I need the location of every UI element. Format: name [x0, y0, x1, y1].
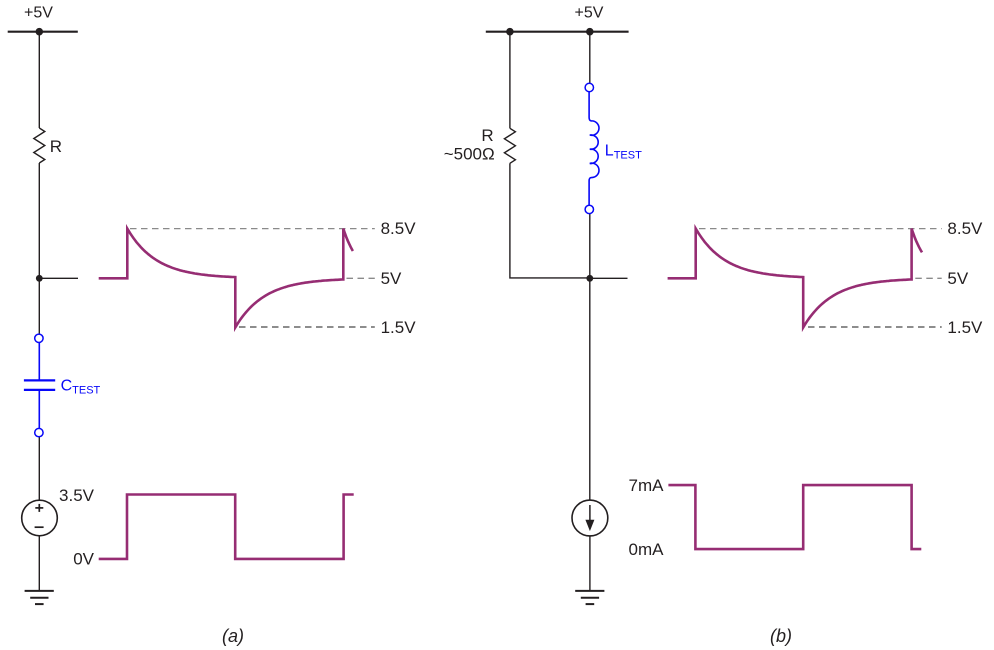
svg-text:0mA: 0mA	[629, 540, 665, 559]
svg-text:R: R	[50, 137, 62, 156]
svg-text:+5V: +5V	[24, 5, 53, 22]
svg-text:R: R	[481, 126, 493, 145]
svg-text:3.5V: 3.5V	[59, 486, 95, 505]
svg-text:8.5V: 8.5V	[947, 219, 983, 238]
svg-text:0V: 0V	[73, 549, 94, 568]
svg-text:5V: 5V	[381, 269, 402, 288]
svg-text:LTEST: LTEST	[605, 143, 642, 162]
svg-text:+5V: +5V	[575, 5, 604, 22]
svg-text:8.5V: 8.5V	[381, 219, 417, 238]
svg-text:1.5V: 1.5V	[947, 318, 983, 337]
svg-text:~500Ω: ~500Ω	[444, 144, 495, 163]
svg-text:5V: 5V	[947, 269, 968, 288]
svg-text:7mA: 7mA	[629, 476, 665, 495]
svg-text:1.5V: 1.5V	[381, 318, 417, 337]
svg-text:(b): (b)	[770, 626, 792, 646]
svg-text:(a): (a)	[222, 626, 244, 646]
svg-text:CTEST: CTEST	[61, 378, 101, 397]
